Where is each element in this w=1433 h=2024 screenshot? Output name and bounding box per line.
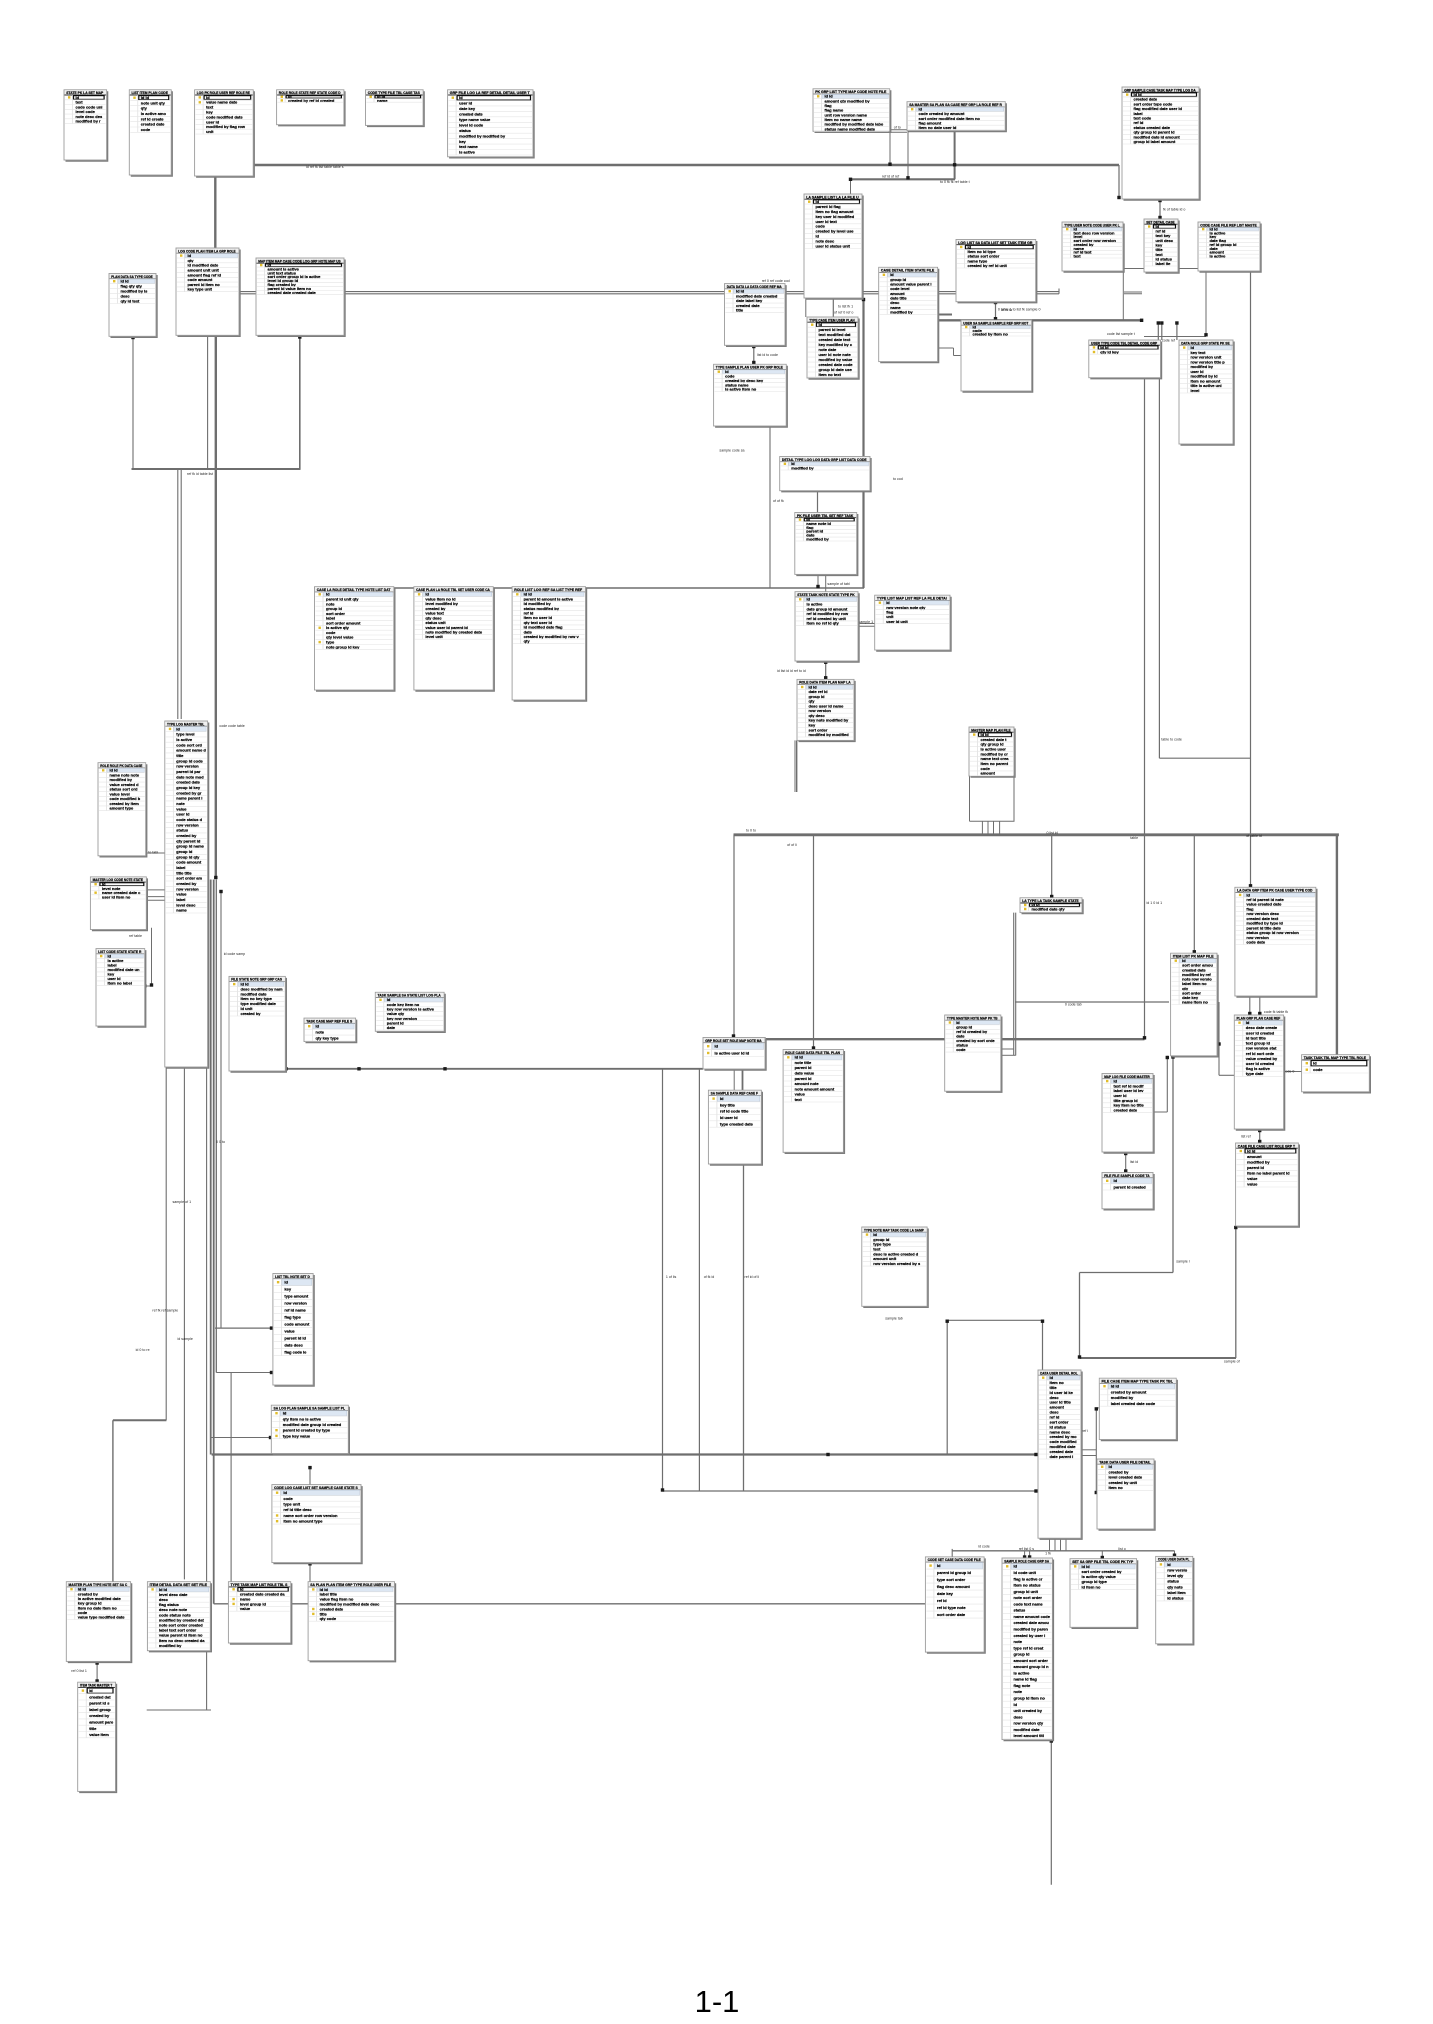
svg-text:code status d: code status d bbox=[176, 817, 202, 822]
svg-text:sample tab: sample tab bbox=[885, 1317, 903, 1321]
table B29c bbox=[512, 587, 586, 701]
svg-text:created dat: created dat bbox=[89, 1694, 111, 1699]
svg-text:to 0 to: to 0 to bbox=[746, 829, 756, 833]
svg-text:type date: type date bbox=[1246, 1071, 1264, 1076]
svg-text:code sort ord: code sort ord bbox=[176, 742, 202, 747]
svg-text:value: value bbox=[795, 1092, 806, 1097]
svg-text:value: value bbox=[284, 1329, 295, 1334]
svg-text:modified by: modified by bbox=[159, 1643, 182, 1648]
svg-text:amount group id n: amount group id n bbox=[1014, 1664, 1050, 1669]
table B56 bbox=[1236, 1143, 1300, 1227]
svg-text:code: code bbox=[956, 1047, 966, 1052]
table B54 bbox=[1234, 1015, 1284, 1130]
svg-text:item no date user id: item no date user id bbox=[919, 125, 957, 130]
svg-text:note unit qty: note unit qty bbox=[141, 100, 166, 105]
svg-text:ref id of li: ref id of li bbox=[745, 1275, 760, 1279]
svg-text:created date: created date bbox=[1114, 1107, 1138, 1112]
svg-text:item no label parent id: item no label parent id bbox=[1247, 1171, 1290, 1176]
svg-text:text name: text name bbox=[459, 144, 478, 149]
svg-text:ROLE DATA ITEM PLAN MAP LA: ROLE DATA ITEM PLAN MAP LA bbox=[799, 680, 851, 685]
table B19 bbox=[1198, 222, 1261, 272]
svg-text:id: id bbox=[176, 726, 180, 731]
svg-text:flag note: flag note bbox=[1014, 1683, 1031, 1688]
svg-text:row version: row version bbox=[176, 886, 199, 891]
svg-text:ref id of ref: ref id of ref bbox=[882, 175, 899, 179]
svg-text:of to ta: of to ta bbox=[1001, 308, 1012, 312]
svg-text:parent id par: parent id par bbox=[176, 769, 201, 774]
svg-text:item no amount type: item no amount type bbox=[283, 1519, 323, 1524]
svg-text:type sort order: type sort order bbox=[937, 1577, 966, 1582]
svg-text:DATA USER DETAIL ROL: DATA USER DETAIL ROL bbox=[1040, 1370, 1078, 1375]
svg-text:parent id created by type: parent id created by type bbox=[283, 1428, 331, 1433]
svg-text:TYPE MASTER NOTE MAP PK TB: TYPE MASTER NOTE MAP PK TB bbox=[947, 1015, 998, 1020]
svg-text:code: code bbox=[283, 1496, 293, 1501]
table B46 bbox=[273, 1274, 314, 1386]
svg-text:row version qty: row version qty bbox=[1014, 1721, 1044, 1726]
svg-text:flag desc amount: flag desc amount bbox=[937, 1584, 971, 1589]
svg-text:note: note bbox=[1014, 1639, 1023, 1644]
svg-text:created by amount: created by amount bbox=[1111, 1389, 1147, 1394]
svg-text:ref id type note: ref id type note bbox=[937, 1605, 966, 1610]
svg-text:table: table bbox=[1130, 836, 1138, 840]
table B59 bbox=[272, 1485, 362, 1564]
svg-text:of table id: of table id bbox=[1246, 834, 1262, 838]
svg-text:label group: label group bbox=[89, 1707, 111, 1712]
svg-text:created by unit: created by unit bbox=[1109, 1480, 1138, 1485]
svg-text:ld id: ld id bbox=[1111, 1384, 1120, 1389]
svg-text:id user id: id user id bbox=[720, 1115, 738, 1120]
svg-text:ld id: ld id bbox=[1247, 1148, 1256, 1153]
svg-text:TYPE CASE ITEM USER PLAN: TYPE CASE ITEM USER PLAN bbox=[809, 317, 855, 322]
svg-text:modified date: modified date bbox=[1014, 1727, 1041, 1732]
svg-text:id: id bbox=[1014, 1564, 1018, 1569]
table B7 bbox=[109, 274, 157, 338]
svg-text:modified by: modified by bbox=[1111, 1395, 1134, 1400]
svg-text:name parent i: name parent i bbox=[176, 796, 202, 801]
svg-text:SAMPLE ROLE CASE GRP SA: SAMPLE ROLE CASE GRP SA bbox=[1004, 1558, 1049, 1563]
svg-text:table to code: table to code bbox=[1161, 737, 1182, 741]
svg-text:date parent i: date parent i bbox=[1050, 1454, 1074, 1459]
svg-text:date value: date value bbox=[795, 1071, 815, 1076]
svg-text:to 0 fk fk ref table t: to 0 fk fk ref table t bbox=[940, 180, 970, 184]
svg-text:to tabl: to tabl bbox=[148, 851, 158, 855]
svg-text:of of li: of of li bbox=[787, 843, 797, 847]
svg-text:created date: created date bbox=[459, 112, 483, 117]
svg-text:modified by paren: modified by paren bbox=[1014, 1627, 1049, 1632]
svg-text:code: code bbox=[141, 127, 151, 132]
svg-text:group id: group id bbox=[1014, 1652, 1031, 1657]
svg-text:MAP LOG FILE CODE MASTER: MAP LOG FILE CODE MASTER bbox=[1104, 1074, 1150, 1079]
table B9 bbox=[256, 258, 345, 336]
svg-text:created by: created by bbox=[241, 1011, 262, 1016]
table B43 bbox=[1171, 953, 1218, 1056]
svg-text:status: status bbox=[176, 828, 189, 833]
svg-text:sample of: sample of bbox=[1224, 1360, 1240, 1364]
svg-text:ref id code title: ref id code title bbox=[720, 1109, 749, 1114]
svg-text:of of fk: of of fk bbox=[773, 499, 784, 503]
table B65 bbox=[925, 1557, 985, 1653]
svg-text:created by gr: created by gr bbox=[176, 790, 202, 795]
svg-text:type created date: type created date bbox=[720, 1121, 754, 1126]
svg-text:amount note: amount note bbox=[795, 1081, 820, 1086]
svg-text:is active item no: is active item no bbox=[725, 387, 757, 392]
svg-text:created by user i: created by user i bbox=[1014, 1633, 1046, 1638]
svg-text:group id unit: group id unit bbox=[1014, 1589, 1039, 1594]
svg-text:LIST TBL NOTE SET D: LIST TBL NOTE SET D bbox=[275, 1274, 310, 1279]
table B58 bbox=[271, 1405, 349, 1454]
svg-text:value: value bbox=[1247, 1176, 1258, 1181]
svg-text:1-1: 1-1 bbox=[695, 1984, 740, 2019]
table B29a bbox=[315, 587, 395, 691]
svg-text:list id to code: list id to code bbox=[757, 353, 778, 357]
svg-text:key title: key title bbox=[720, 1102, 736, 1107]
table B13 bbox=[804, 194, 863, 299]
svg-text:group id code: group id code bbox=[176, 758, 203, 763]
table B6 bbox=[448, 90, 534, 158]
svg-text:user id: user id bbox=[459, 101, 473, 106]
table B35 bbox=[96, 949, 146, 1027]
svg-text:date key: date key bbox=[937, 1591, 954, 1596]
svg-text:is active: is active bbox=[1014, 1670, 1031, 1675]
svg-text:id: id bbox=[1014, 1702, 1018, 1707]
svg-text:item no status: item no status bbox=[1014, 1583, 1042, 1588]
svg-text:item no ref id qty: item no ref id qty bbox=[807, 621, 840, 626]
table B23 bbox=[714, 364, 787, 427]
svg-text:id: id bbox=[1167, 1562, 1171, 1567]
svg-text:ITEM LIST PK MAP FILE: ITEM LIST PK MAP FILE bbox=[1173, 954, 1214, 959]
svg-text:name amount code: name amount code bbox=[1014, 1614, 1051, 1619]
svg-text:label created date code: label created date code bbox=[1111, 1401, 1156, 1406]
table B16 bbox=[1122, 87, 1200, 200]
svg-text:GRP ROLE SET ROLE MAP NOTE MA: GRP ROLE SET ROLE MAP NOTE MA bbox=[705, 1038, 762, 1043]
svg-text:ref id title desc: ref id title desc bbox=[283, 1507, 312, 1512]
table B1 bbox=[64, 90, 107, 161]
table B20 bbox=[956, 240, 1037, 303]
svg-text:CODE USER DATA PL: CODE USER DATA PL bbox=[1158, 1557, 1190, 1562]
table B21 bbox=[961, 320, 1032, 392]
svg-text:1 of lis: 1 of lis bbox=[666, 1275, 677, 1279]
svg-text:PLAN GRP PLAN CASE REF: PLAN GRP PLAN CASE REF bbox=[1237, 1015, 1281, 1020]
svg-text:DATA DATA LA DATA CODE REF MA: DATA DATA LA DATA CODE REF MA bbox=[727, 284, 782, 289]
svg-text:title: title bbox=[736, 308, 744, 313]
svg-text:title: title bbox=[89, 1726, 97, 1731]
table B32 bbox=[165, 721, 209, 1068]
svg-text:sort order date: sort order date bbox=[937, 1612, 966, 1617]
svg-text:parent id: parent id bbox=[795, 1065, 812, 1070]
table B45 bbox=[304, 1018, 356, 1042]
svg-text:note: note bbox=[316, 1030, 325, 1035]
svg-text:id: id bbox=[284, 1280, 288, 1285]
svg-text:value item: value item bbox=[89, 1732, 109, 1737]
svg-text:group id item no: group id item no bbox=[1014, 1696, 1046, 1701]
svg-text:ref id create: ref id create bbox=[141, 116, 164, 121]
svg-text:sample 1: sample 1 bbox=[859, 620, 874, 624]
svg-text:name: name bbox=[176, 908, 187, 913]
svg-text:FILE STATE NOTE GRP GRP CAS: FILE STATE NOTE GRP GRP CAS bbox=[231, 977, 282, 982]
svg-text:id: id bbox=[89, 1688, 93, 1693]
svg-text:flag code le: flag code le bbox=[284, 1350, 307, 1355]
svg-text:is active: is active bbox=[459, 150, 476, 155]
svg-text:SET DETAIL CASE: SET DETAIL CASE bbox=[1146, 219, 1175, 224]
svg-text:user id item no: user id item no bbox=[102, 894, 131, 899]
table B60 bbox=[66, 1582, 131, 1663]
svg-text:title title: title title bbox=[176, 870, 192, 875]
table B71 bbox=[1070, 1559, 1137, 1628]
svg-text:modified date group id created: modified date group id created bbox=[283, 1422, 342, 1427]
table B33 bbox=[98, 763, 147, 857]
svg-text:parent id group id: parent id group id bbox=[937, 1570, 972, 1575]
svg-text:value: value bbox=[176, 806, 187, 811]
svg-text:id: id bbox=[720, 1096, 724, 1101]
svg-text:id list id id ref to id: id list id id ref to id bbox=[777, 669, 806, 673]
svg-text:item no label: item no label bbox=[108, 981, 132, 986]
svg-text:ROLE CASE DATA FILE TBL PLAN: ROLE CASE DATA FILE TBL PLAN bbox=[785, 1050, 840, 1055]
svg-text:qty id key: qty id key bbox=[1100, 349, 1119, 354]
svg-text:code amount: code amount bbox=[176, 860, 202, 865]
svg-text:code text name: code text name bbox=[1014, 1601, 1044, 1606]
svg-text:modified by r: modified by r bbox=[76, 119, 102, 124]
svg-text:group id label amount: group id label amount bbox=[1134, 139, 1176, 144]
table B42 bbox=[1020, 898, 1083, 914]
table B11 bbox=[907, 102, 1006, 132]
table B66 bbox=[1038, 1370, 1082, 1539]
svg-text:list o: list o bbox=[1118, 1547, 1125, 1551]
table B41 bbox=[969, 727, 1015, 777]
svg-text:level qty: level qty bbox=[1167, 1573, 1184, 1578]
svg-text:label ite: label ite bbox=[1156, 261, 1172, 266]
svg-text:id ref fk list table table s: id ref fk list table table s bbox=[306, 165, 344, 169]
svg-text:ref 0 ref code cod: ref 0 ref code cod bbox=[762, 279, 790, 283]
svg-text:modified by modified: modified by modified bbox=[809, 732, 850, 737]
svg-text:code: code bbox=[1313, 1067, 1323, 1072]
svg-text:value: value bbox=[1247, 1182, 1258, 1187]
svg-text:ITEM TASK MASTER T: ITEM TASK MASTER T bbox=[80, 1683, 113, 1688]
svg-text:id code: id code bbox=[978, 1544, 990, 1548]
table B37 bbox=[375, 992, 445, 1032]
svg-text:flag type: flag type bbox=[284, 1315, 301, 1320]
table B29b bbox=[414, 587, 494, 691]
svg-text:DATA ROLE GRP STATE PK SE: DATA ROLE GRP STATE PK SE bbox=[1181, 340, 1230, 345]
svg-text:SA SAMPLE DATA REF CASE F: SA SAMPLE DATA REF CASE F bbox=[711, 1091, 759, 1096]
svg-text:code ref: code ref bbox=[1162, 339, 1175, 343]
svg-text:LA SAMPLE LIST LA LA FILE U: LA SAMPLE LIST LA LA FILE U bbox=[806, 194, 859, 199]
svg-text:ref id: ref id bbox=[937, 1598, 947, 1603]
svg-text:LIST CODE STATE STATE R: LIST CODE STATE STATE R bbox=[98, 949, 141, 954]
table B53 bbox=[1102, 1173, 1154, 1210]
svg-text:row version: row version bbox=[176, 822, 199, 827]
svg-text:type amount: type amount bbox=[284, 1294, 308, 1299]
svg-text:value type modified date: value type modified date bbox=[78, 1615, 125, 1620]
svg-text:text: text bbox=[795, 1097, 803, 1102]
svg-text:modified by: modified by bbox=[791, 465, 814, 470]
svg-text:is active user id id: is active user id id bbox=[715, 1051, 750, 1056]
table B52 bbox=[1102, 1074, 1154, 1153]
svg-text:MASTER LOG CODE NOTE STATE: MASTER LOG CODE NOTE STATE bbox=[93, 877, 144, 882]
svg-text:created by: created by bbox=[176, 833, 197, 838]
table B5 bbox=[366, 90, 424, 126]
svg-text:amount sort order: amount sort order bbox=[1014, 1658, 1049, 1663]
svg-text:created by modified by row v: created by modified by row v bbox=[524, 634, 580, 639]
svg-text:row versio: row versio bbox=[1167, 1567, 1188, 1572]
table B48 bbox=[708, 1090, 762, 1165]
svg-text:qty note: qty note bbox=[1167, 1584, 1183, 1589]
table B67 bbox=[1099, 1378, 1177, 1440]
svg-text:id sample: id sample bbox=[178, 1337, 193, 1341]
svg-text:created by: created by bbox=[176, 881, 197, 886]
svg-text:id item no: id item no bbox=[1082, 1584, 1101, 1589]
svg-text:group id name: group id name bbox=[176, 844, 204, 849]
svg-text:id code samp: id code samp bbox=[224, 952, 245, 956]
svg-text:item no: item no bbox=[1109, 1485, 1124, 1490]
svg-text:id: id bbox=[1114, 1178, 1118, 1183]
svg-text:ref 0 list 1: ref 0 list 1 bbox=[71, 1669, 87, 1673]
svg-text:name id flag: name id flag bbox=[1014, 1677, 1038, 1682]
svg-text:qty key type: qty key type bbox=[316, 1036, 340, 1041]
svg-text:to cod: to cod bbox=[893, 477, 903, 481]
svg-text:unit created by: unit created by bbox=[1014, 1708, 1043, 1713]
svg-text:of ref 0 ref o: of ref 0 ref o bbox=[834, 311, 853, 315]
table B4 bbox=[277, 90, 345, 126]
svg-text:sample l: sample l bbox=[1176, 1260, 1190, 1264]
table B31 bbox=[1179, 340, 1234, 445]
svg-text:qty id text: qty id text bbox=[121, 298, 141, 303]
svg-text:status name modified date: status name modified date bbox=[825, 126, 876, 131]
svg-text:FILE FILE SAMPLE CODE TA: FILE FILE SAMPLE CODE TA bbox=[1104, 1173, 1150, 1178]
svg-text:type level: type level bbox=[176, 732, 194, 737]
svg-text:of fk id: of fk id bbox=[704, 1275, 715, 1279]
svg-text:sample code sa: sample code sa bbox=[719, 449, 744, 453]
svg-text:created date amou: created date amou bbox=[1014, 1620, 1050, 1625]
svg-text:ref id name: ref id name bbox=[284, 1308, 306, 1313]
svg-text:parent id created: parent id created bbox=[1114, 1184, 1147, 1189]
svg-text:level: level bbox=[1191, 388, 1200, 393]
svg-text:created date: created date bbox=[141, 122, 165, 127]
table B12 bbox=[879, 267, 939, 362]
svg-text:CASE DETAIL ITEM STATE FILE: CASE DETAIL ITEM STATE FILE bbox=[881, 268, 935, 273]
svg-text:code fk table fk: code fk table fk bbox=[1264, 1010, 1288, 1014]
table B8 bbox=[176, 248, 240, 336]
svg-text:code list sample t: code list sample t bbox=[1107, 332, 1135, 336]
svg-text:id 1 0 id 1: id 1 0 id 1 bbox=[1147, 901, 1163, 905]
svg-text:value: value bbox=[240, 1606, 251, 1611]
svg-text:created date created date: created date created date bbox=[268, 290, 317, 295]
svg-text:STATE PK LA SET MAP: STATE PK LA SET MAP bbox=[66, 90, 103, 95]
svg-text:id: id bbox=[283, 1490, 287, 1495]
svg-text:user id: user id bbox=[176, 812, 190, 817]
svg-text:code date: code date bbox=[1246, 940, 1265, 945]
svg-text:id: id bbox=[1109, 1464, 1113, 1469]
svg-text:amount type: amount type bbox=[110, 806, 135, 811]
svg-text:qty code: qty code bbox=[320, 1616, 337, 1621]
svg-text:to list fk 1: to list fk 1 bbox=[838, 305, 853, 309]
svg-text:created by: created by bbox=[89, 1713, 110, 1718]
svg-text:level unit: level unit bbox=[425, 634, 443, 639]
svg-text:ref i: ref i bbox=[1082, 1429, 1088, 1433]
svg-text:flag is active cr: flag is active cr bbox=[1014, 1576, 1043, 1581]
svg-text:row version: row version bbox=[176, 764, 199, 769]
svg-text:type key value: type key value bbox=[283, 1433, 311, 1438]
svg-text:of to: of to bbox=[894, 126, 901, 130]
svg-text:level amount titl: level amount titl bbox=[1014, 1733, 1044, 1738]
svg-text:group id key: group id key bbox=[176, 785, 201, 790]
table B34 bbox=[90, 877, 147, 930]
svg-text:list ref: list ref bbox=[1241, 1134, 1251, 1138]
svg-text:unit: unit bbox=[206, 129, 214, 134]
svg-text:id: id bbox=[283, 1411, 287, 1416]
svg-text:1 fk: 1 fk bbox=[1045, 1552, 1051, 1556]
svg-text:CODE TYPE FILE TBL CASE TAS: CODE TYPE FILE TBL CASE TAS bbox=[368, 90, 420, 95]
svg-text:title: title bbox=[176, 753, 184, 758]
svg-text:qty item no is active: qty item no is active bbox=[283, 1416, 322, 1421]
table B3 bbox=[195, 90, 254, 177]
svg-text:modified by modified by: modified by modified by bbox=[459, 133, 506, 138]
table B10 bbox=[813, 89, 891, 132]
table B28 bbox=[875, 595, 951, 651]
svg-text:key: key bbox=[284, 1287, 291, 1292]
table B64 bbox=[78, 1682, 117, 1792]
svg-text:id: id bbox=[1313, 1061, 1317, 1066]
svg-text:sample of 1: sample of 1 bbox=[173, 1200, 192, 1204]
svg-text:name sort order row version: name sort order row version bbox=[283, 1513, 338, 1518]
svg-text:id: id bbox=[459, 95, 463, 100]
svg-text:amount: amount bbox=[981, 771, 996, 776]
svg-text:note sort order: note sort order bbox=[1014, 1595, 1043, 1600]
table B50 bbox=[862, 1227, 928, 1307]
table B49 bbox=[783, 1050, 844, 1154]
svg-text:ref fk ref sample: ref fk ref sample bbox=[152, 1309, 178, 1313]
svg-text:date: date bbox=[387, 1025, 396, 1030]
table B55 bbox=[1302, 1055, 1371, 1093]
svg-text:user id status unit: user id status unit bbox=[816, 243, 851, 248]
svg-text:TYPE LOG MASTER TBL: TYPE LOG MASTER TBL bbox=[167, 721, 205, 726]
svg-text:ld id: ld id bbox=[795, 1055, 804, 1060]
svg-text:CODE SET CASE DATA CODE FILE: CODE SET CASE DATA CODE FILE bbox=[928, 1557, 981, 1562]
relationship wires bbox=[97, 130, 1339, 1885]
svg-text:0 list id: 0 list id bbox=[1047, 831, 1058, 835]
svg-text:created by level use: created by level use bbox=[816, 229, 855, 234]
table B39 bbox=[797, 679, 855, 741]
table B2 bbox=[129, 90, 172, 176]
svg-text:group id: group id bbox=[176, 849, 193, 854]
svg-text:modified date qty: modified date qty bbox=[1032, 906, 1066, 911]
table B22 bbox=[1089, 340, 1162, 379]
svg-text:created by ref id unit: created by ref id unit bbox=[968, 263, 1008, 268]
svg-text:parent id: parent id bbox=[1247, 1165, 1264, 1170]
svg-text:status: status bbox=[1167, 1579, 1180, 1584]
table B36 bbox=[229, 976, 286, 1071]
svg-text:ld id: ld id bbox=[141, 95, 150, 100]
svg-text:amount name d: amount name d bbox=[176, 748, 206, 753]
table B68 bbox=[1097, 1459, 1155, 1530]
table B44 bbox=[1235, 887, 1317, 997]
svg-text:date desc: date desc bbox=[284, 1343, 303, 1348]
svg-text:status: status bbox=[459, 128, 472, 133]
svg-text:name item no: name item no bbox=[1182, 1000, 1208, 1005]
junction squares bbox=[95, 163, 1261, 1743]
svg-text:id: id bbox=[937, 1563, 941, 1568]
table B25 bbox=[780, 457, 871, 492]
svg-text:sort order am: sort order am bbox=[176, 876, 202, 881]
svg-text:note group id key: note group id key bbox=[326, 644, 360, 649]
svg-text:id code unit: id code unit bbox=[1014, 1570, 1037, 1575]
svg-text:key: key bbox=[459, 139, 466, 144]
svg-text:created date: created date bbox=[176, 780, 200, 785]
svg-text:fk of table id o: fk of table id o bbox=[1163, 208, 1185, 212]
svg-text:label: label bbox=[176, 865, 185, 870]
table B51 bbox=[945, 1015, 1002, 1092]
table B63 bbox=[308, 1582, 395, 1662]
table B18 bbox=[1144, 219, 1179, 273]
